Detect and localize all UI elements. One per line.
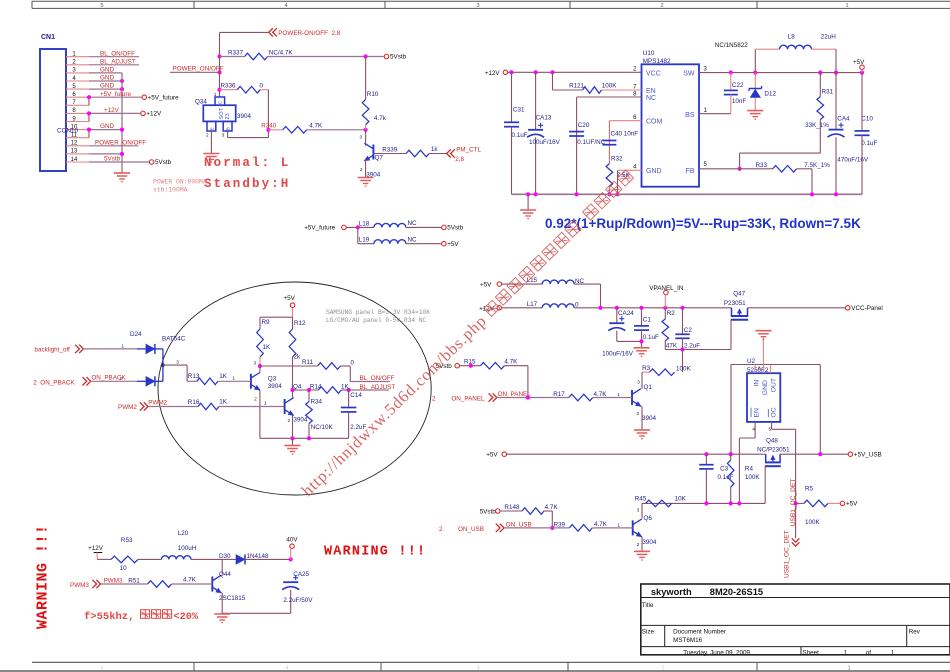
CN1 pin 1 (66, 56, 89, 58)
node POWER_ON/OFF junction (217, 70, 221, 74)
wire R2/C2 to Q47 gate (665, 349, 731, 351)
svg-text:<20%: <20% (174, 612, 199, 623)
svg-text:+12V: +12V (485, 70, 501, 77)
svg-text:CA4: CA4 (837, 115, 850, 122)
wire 5Vstb pin14 (89, 161, 149, 163)
svg-text:470uF/16V: 470uF/16V (837, 156, 869, 163)
node rail CA13 (534, 192, 538, 196)
wire U10 NC pin8 (577, 96, 642, 98)
svg-text:BL_ON/OFF: BL_ON/OFF (360, 375, 395, 382)
ground Q44 (214, 613, 230, 615)
svg-text:3904: 3904 (268, 383, 283, 390)
svg-text:3: 3 (176, 360, 179, 365)
svg-text:1: 1 (618, 523, 621, 528)
svg-text:0.1UF/NC: 0.1UF/NC (577, 139, 605, 146)
svg-text:1: 1 (847, 665, 850, 671)
node R10 bottom junction (364, 128, 368, 132)
ground Q34 (203, 153, 219, 155)
svg-text:10K: 10K (675, 496, 687, 503)
node CA24/C1 ground join (639, 339, 643, 343)
wire +5V_future pin6 (89, 96, 142, 98)
svg-text:Q3: Q3 (268, 375, 277, 382)
svg-text:3: 3 (637, 508, 640, 513)
node CA24 (615, 306, 619, 310)
node R340 left junction (266, 128, 270, 132)
svg-text:R2: R2 (667, 310, 676, 317)
wire R337 to 5Vstb (268, 56, 384, 58)
svg-text:R31: R31 (822, 89, 834, 96)
resistor R148 (500, 510, 522, 512)
svg-text:40V: 40V (286, 536, 298, 543)
off-page connector USB1_OC_DET (792, 538, 800, 542)
svg-text:EN: EN (646, 88, 656, 95)
svg-text:PWM2: PWM2 (118, 404, 137, 411)
svg-text:skyworth: skyworth (651, 587, 692, 597)
svg-text:GND: GND (100, 67, 114, 74)
node +5V out junction (860, 71, 864, 75)
svg-text:POWER_ON/OFF: POWER_ON/OFF (95, 139, 146, 146)
svg-text:Document Number: Document Number (673, 629, 726, 636)
svg-text:CA13: CA13 (536, 115, 552, 122)
transistor Q1 (2N3904) (641, 372, 643, 389)
wire +5V to R9/R12 (292, 308, 294, 317)
svg-text:+5V_USB: +5V_USB (854, 452, 882, 459)
svg-text:MST6M16: MST6M16 (673, 637, 703, 644)
svg-text:R32: R32 (611, 156, 623, 163)
svg-text:5Vstb: 5Vstb (155, 159, 172, 166)
svg-text:2: 2 (660, 3, 663, 9)
svg-text:2: 2 (661, 665, 664, 671)
node GND bus junction pin10 (120, 128, 124, 132)
svg-text:3904: 3904 (293, 416, 308, 423)
node rail CA4 (834, 192, 838, 196)
watermark diagonal (298, 168, 637, 500)
svg-text:D30: D30 (219, 553, 231, 560)
svg-text:12: 12 (71, 141, 78, 147)
svg-text:BAT54C: BAT54C (162, 336, 186, 343)
svg-text:OUT: OUT (771, 378, 778, 392)
wire pin7 join pin6 (88, 97, 90, 105)
port +5V_future (142, 95, 147, 100)
svg-text:Title: Title (642, 602, 654, 609)
node GND bus junction pin5 (120, 87, 124, 91)
node C3 top (704, 452, 708, 456)
svg-text:GND: GND (646, 168, 662, 175)
svg-text:+5V: +5V (486, 452, 498, 459)
svg-text:U10: U10 (643, 50, 655, 57)
svg-text:POWER ON:800MA: POWER ON:800MA (153, 179, 207, 186)
off-page connector POWER-ON/OFF (269, 28, 273, 36)
port +5V_USB (848, 452, 853, 457)
ground symbol U10 rail (526, 192, 530, 196)
svg-text:4.7K: 4.7K (309, 123, 323, 130)
svg-text:+5V_future: +5V_future (100, 91, 131, 98)
svg-text:2: 2 (637, 542, 640, 547)
node C31 junction (509, 70, 513, 74)
svg-text:B: B (226, 127, 231, 130)
svg-text:GND: GND (762, 380, 769, 395)
node C2/R3 junction (680, 347, 684, 351)
svg-text:POWER-ON/OFF 2,8: POWER-ON/OFF 2,8 (278, 30, 340, 37)
svg-text:NC: NC (408, 220, 418, 227)
CN1 pin 13 (66, 153, 89, 155)
node L15 join (598, 306, 602, 310)
svg-text:8M20-26S15: 8M20-26S15 (710, 587, 763, 597)
svg-text:4: 4 (752, 427, 755, 432)
U2 IN pin stub (754, 365, 756, 374)
svg-text:R15: R15 (464, 358, 476, 365)
svg-text:R39: R39 (554, 521, 566, 528)
svg-text:1K: 1K (263, 344, 272, 351)
GND bus wire (121, 73, 123, 173)
svg-text:COM: COM (646, 119, 663, 126)
wire GND pin10 (89, 129, 122, 131)
svg-text:D12: D12 (764, 90, 776, 97)
node R336/Q34 junction (217, 88, 221, 92)
svg-text:+5V: +5V (480, 282, 492, 289)
svg-text:C2: C2 (684, 327, 693, 334)
svg-text:4: 4 (284, 3, 287, 9)
svg-text:100uF/16V: 100uF/16V (602, 351, 634, 358)
svg-text:1K: 1K (219, 373, 228, 380)
svg-text:+5V: +5V (846, 501, 858, 508)
svg-text:C3: C3 (720, 465, 729, 472)
svg-text:BL_ADJUST: BL_ADJUST (100, 58, 136, 65)
node R14/C14 junction (347, 388, 351, 392)
svg-text:47K: 47K (666, 343, 678, 350)
CN1 pin 14 (66, 161, 89, 163)
svg-text:1: 1 (232, 375, 235, 380)
svg-text:E: E (210, 127, 215, 130)
svg-text:0.1uF: 0.1uF (512, 132, 528, 139)
svg-text:L20: L20 (178, 530, 189, 537)
svg-text:LG/CMO/AU panel 0-5V,R34 NC: LG/CMO/AU panel 0-5V,R34 NC (326, 317, 427, 324)
svg-text:Normal: L: Normal: L (204, 156, 290, 170)
wire backlight emitter rail (260, 437, 349, 439)
node pin6/7 junction (87, 95, 91, 99)
CN1 pin 7 (66, 104, 89, 106)
svg-text:VCC: VCC (646, 70, 661, 77)
svg-text:2SC1815: 2SC1815 (219, 595, 246, 602)
node rail R34 (307, 436, 311, 440)
off-page connector PM_CTL (447, 149, 451, 157)
svg-text:100K: 100K (676, 366, 692, 373)
svg-text:100uF/16V: 100uF/16V (529, 139, 561, 146)
node R31 junction (818, 71, 822, 75)
svg-text:1K: 1K (341, 383, 350, 390)
svg-text:EN: EN (753, 408, 760, 418)
svg-text:WARNING !!!: WARNING !!! (324, 545, 426, 560)
svg-text:5: 5 (100, 3, 103, 9)
svg-text:SOT: SOT (219, 107, 225, 119)
wire GND pin5 (89, 88, 122, 90)
node L18/L19 junction (356, 225, 360, 229)
node C22 junction (729, 71, 733, 75)
node row R4 (729, 501, 733, 505)
svg-text:VCC-Panel: VCC-Panel (851, 305, 883, 312)
svg-text:NC/10K: NC/10K (311, 424, 334, 431)
node Q4 collector junction (290, 388, 294, 392)
svg-text:4.7k: 4.7k (374, 115, 387, 122)
svg-text:Sheet: Sheet (802, 649, 819, 656)
svg-text:R14: R14 (310, 383, 322, 390)
svg-text:3: 3 (637, 379, 640, 384)
svg-text:stb:100MA: stb:100MA (153, 187, 188, 194)
wire +12V to U10 VCC (508, 71, 642, 73)
svg-text:Q44: Q44 (219, 571, 231, 578)
svg-text:2: 2 (254, 396, 257, 401)
svg-text:+5V_future: +5V_future (148, 94, 179, 101)
svg-text:0: 0 (260, 83, 264, 90)
title block (641, 584, 950, 655)
wire D24 common cathode (162, 349, 164, 381)
svg-text:R4: R4 (745, 465, 754, 472)
svg-text:+12V: +12V (88, 545, 104, 552)
svg-text:3904: 3904 (642, 415, 657, 422)
svg-text:L18: L18 (359, 220, 370, 227)
svg-text:3: 3 (476, 665, 479, 671)
port +5V L19 (442, 241, 447, 246)
wire R340 to R10 bottom (307, 129, 366, 131)
wire L15 to +12V row (574, 283, 600, 285)
svg-text:4.7K: 4.7K (594, 521, 608, 528)
svg-text:R9: R9 (262, 319, 271, 326)
svg-text:NC/P23051: NC/P23051 (757, 447, 790, 454)
svg-text:WARNING !!!: WARNING !!! (35, 524, 52, 629)
svg-text:ON_USB: ON_USB (506, 521, 532, 528)
wire L17 to Q47 (574, 307, 731, 309)
svg-text:C22: C22 (732, 82, 744, 89)
svg-text:100K: 100K (745, 474, 761, 481)
CN1 pin 10 (66, 129, 89, 131)
svg-text:5Vstb: 5Vstb (104, 156, 121, 163)
wire GND pin4 (89, 80, 122, 82)
svg-text:L19: L19 (359, 237, 370, 244)
svg-text:1k: 1k (431, 146, 439, 153)
CN1 pin 5 (66, 88, 89, 90)
svg-text:R3: R3 (642, 365, 651, 372)
transistor Q7 (2N3904) (365, 130, 367, 146)
svg-text:R339: R339 (382, 147, 398, 154)
svg-text:3: 3 (222, 133, 225, 138)
transistor Q6 (2N3904) (641, 503, 643, 518)
svg-text:C14: C14 (350, 392, 362, 399)
svg-text:5Vstb: 5Vstb (390, 54, 407, 61)
node C2 (680, 306, 684, 310)
svg-text:100uH: 100uH (178, 545, 197, 552)
svg-text:4: 4 (285, 665, 288, 671)
svg-text:5Vstb: 5Vstb (447, 225, 464, 232)
svg-text:3: 3 (254, 361, 257, 366)
svg-text:Size: Size (642, 629, 655, 636)
wire C2 down to R3 (682, 350, 684, 373)
svg-text:C20: C20 (578, 122, 590, 129)
node C1 (639, 306, 643, 310)
svg-text:FB: FB (686, 168, 695, 175)
svg-text:PWM2: PWM2 (148, 399, 167, 406)
svg-text:3904: 3904 (642, 539, 657, 546)
svg-text:100K: 100K (602, 83, 618, 90)
svg-text:NC/4.7K: NC/4.7K (269, 50, 294, 57)
svg-text:ON_USB: ON_USB (458, 526, 484, 533)
svg-text:3904: 3904 (237, 113, 252, 120)
svg-text:R10: R10 (367, 91, 379, 98)
transistor Q4 (2N3904) (284, 399, 286, 414)
svg-text:Q47: Q47 (733, 291, 745, 298)
svg-text:R11: R11 (302, 359, 314, 366)
node +5V_USB join (818, 452, 822, 456)
wire GND pin3 (89, 72, 122, 74)
CN1 pin 8 (66, 112, 89, 114)
net label POWER_ON/OFF stub (170, 71, 220, 73)
wire L19 feed (357, 227, 359, 243)
port 5Vstb CN1 (149, 160, 154, 165)
node R5 junction (794, 501, 798, 505)
svg-text:PWM3: PWM3 (104, 577, 123, 584)
node D12 junction (753, 71, 757, 75)
svg-text:C40 10nF: C40 10nF (611, 131, 639, 138)
svg-text:CON10: CON10 (57, 127, 78, 134)
ground backlight rail (292, 438, 294, 445)
svg-text:R121: R121 (569, 83, 585, 90)
node R148/ON_USB junction (550, 526, 554, 530)
wire BL_ADJUST pin2 (89, 64, 139, 66)
svg-text:Standby:H: Standby:H (204, 177, 290, 191)
CN1 pin 4 (66, 80, 89, 82)
svg-text:NC: NC (646, 95, 656, 102)
wire Q44 emitter rail (222, 612, 291, 614)
wire R336 to base loop (267, 90, 269, 138)
node 40V junction (289, 557, 293, 561)
svg-text:4.7K: 4.7K (504, 358, 518, 365)
ground CA24/C1 (634, 347, 650, 349)
net label BL_ADJUST wire (349, 389, 389, 391)
svg-text:GND: GND (100, 123, 114, 130)
resistor R15 (460, 365, 481, 367)
svg-text:13: 13 (71, 149, 78, 155)
svg-text:IN: IN (753, 380, 760, 387)
node row EN (737, 501, 741, 505)
svg-text:R34: R34 (311, 399, 323, 406)
wire Q3 collector row (260, 365, 318, 367)
svg-text:PM_CTL: PM_CTL (456, 146, 481, 153)
port +12V (141, 111, 146, 116)
node pin8/9 junction (87, 111, 91, 115)
svg-text:2: 2 (432, 396, 436, 403)
svg-text:OC: OC (771, 407, 778, 417)
CN1 pin 6 (66, 96, 89, 98)
svg-text:14: 14 (71, 157, 78, 163)
svg-text:Q1: Q1 (644, 384, 653, 391)
port 5Vstb top (384, 54, 389, 59)
node pin10/11 junction (87, 128, 91, 132)
svg-text:1: 1 (264, 401, 267, 406)
U2 OC pin wire (771, 422, 773, 429)
ground rail U10 area (512, 193, 863, 195)
wire pin13 to GND bus (89, 153, 122, 155)
node GND bus junction pin13 (120, 152, 124, 156)
wire Q34 emitter to ground (210, 131, 212, 154)
wire pin11 join pin10 (88, 130, 90, 138)
U2 OUT pin stub (770, 365, 772, 374)
svg-text:+5V: +5V (284, 295, 296, 302)
wire +12V pin8 (89, 112, 140, 114)
node R15/ON_PANEL junction (526, 395, 530, 399)
svg-text:P23051: P23051 (724, 300, 746, 307)
svg-text:2: 2 (439, 526, 443, 533)
wire R11 to BL_ON/OFF (349, 366, 351, 382)
svg-text:23: 23 (225, 113, 231, 119)
svg-text:1: 1 (845, 3, 848, 9)
wire D24 output (163, 364, 187, 366)
svg-text:Q7: Q7 (375, 155, 384, 162)
CN1 pin 9 (66, 121, 89, 123)
svg-text:2: 2 (288, 418, 291, 423)
svg-text:POWER_ON/OFF: POWER_ON/OFF (173, 66, 224, 73)
svg-text:2.2uF/50V: 2.2uF/50V (283, 597, 313, 604)
svg-text:R336: R336 (221, 82, 237, 89)
svg-text:GND: GND (100, 83, 114, 90)
CN1 pin 2 (66, 64, 89, 66)
svg-text:+12V: +12V (104, 107, 120, 114)
wire POWER_ON/OFF pin12 (89, 145, 139, 147)
node R32 rail junction (607, 192, 611, 196)
node Q3 collector junction (258, 364, 262, 368)
svg-text:R148: R148 (504, 504, 520, 511)
port +5V R5 (840, 501, 845, 506)
node GND pin rail junction (615, 192, 619, 196)
svg-text:USB1_OC_DET: USB1_OC_DET (790, 479, 797, 527)
svg-text:0.1uF: 0.1uF (861, 140, 877, 147)
wire POWER_ON/OFF down to Q34 (219, 57, 221, 98)
svg-text:4.7K: 4.7K (594, 391, 608, 398)
svg-text:10: 10 (120, 565, 128, 572)
CN1 pin 11 (66, 137, 89, 139)
svg-text:4.7K: 4.7K (183, 577, 197, 584)
wire BL_ON/OFF pin1 (89, 56, 139, 58)
ellipse highlight (158, 282, 431, 495)
svg-text:5: 5 (100, 665, 103, 671)
svg-text:U2: U2 (747, 358, 756, 365)
transistor Q44 2SC1815 (221, 559, 223, 574)
wire from POWER-ON/OFF chevron (220, 31, 269, 33)
svg-text:1: 1 (122, 343, 125, 348)
port 5Vstb L18 (442, 225, 447, 230)
node R33 rail junction (810, 192, 814, 196)
svg-text:Tuesday, June 09, 2009: Tuesday, June 09, 2009 (683, 649, 750, 656)
svg-text:1K: 1K (219, 399, 228, 406)
svg-text:2: 2 (758, 366, 761, 371)
page border bottom (32, 661, 950, 663)
svg-text:GND: GND (100, 75, 114, 82)
svg-text:L8: L8 (788, 33, 796, 40)
ground Q1 (634, 429, 650, 431)
svg-text:of: of (866, 649, 872, 656)
wire L19 to +5V port (406, 243, 441, 245)
svg-text:NC: NC (408, 236, 418, 243)
svg-text:SW: SW (683, 70, 695, 77)
wire pin9 join pin8 (88, 113, 90, 121)
node rail C20 (575, 192, 579, 196)
svg-text:L17: L17 (527, 301, 538, 308)
svg-text:PWM3: PWM3 (70, 582, 89, 589)
svg-text:R337: R337 (228, 49, 244, 56)
svg-text:R16: R16 (188, 399, 200, 406)
svg-text:f>55khz,: f>55khz, (84, 611, 134, 623)
svg-text:R45: R45 (635, 496, 647, 503)
node L8 out junction (834, 71, 838, 75)
svg-text:C1: C1 (643, 317, 652, 324)
